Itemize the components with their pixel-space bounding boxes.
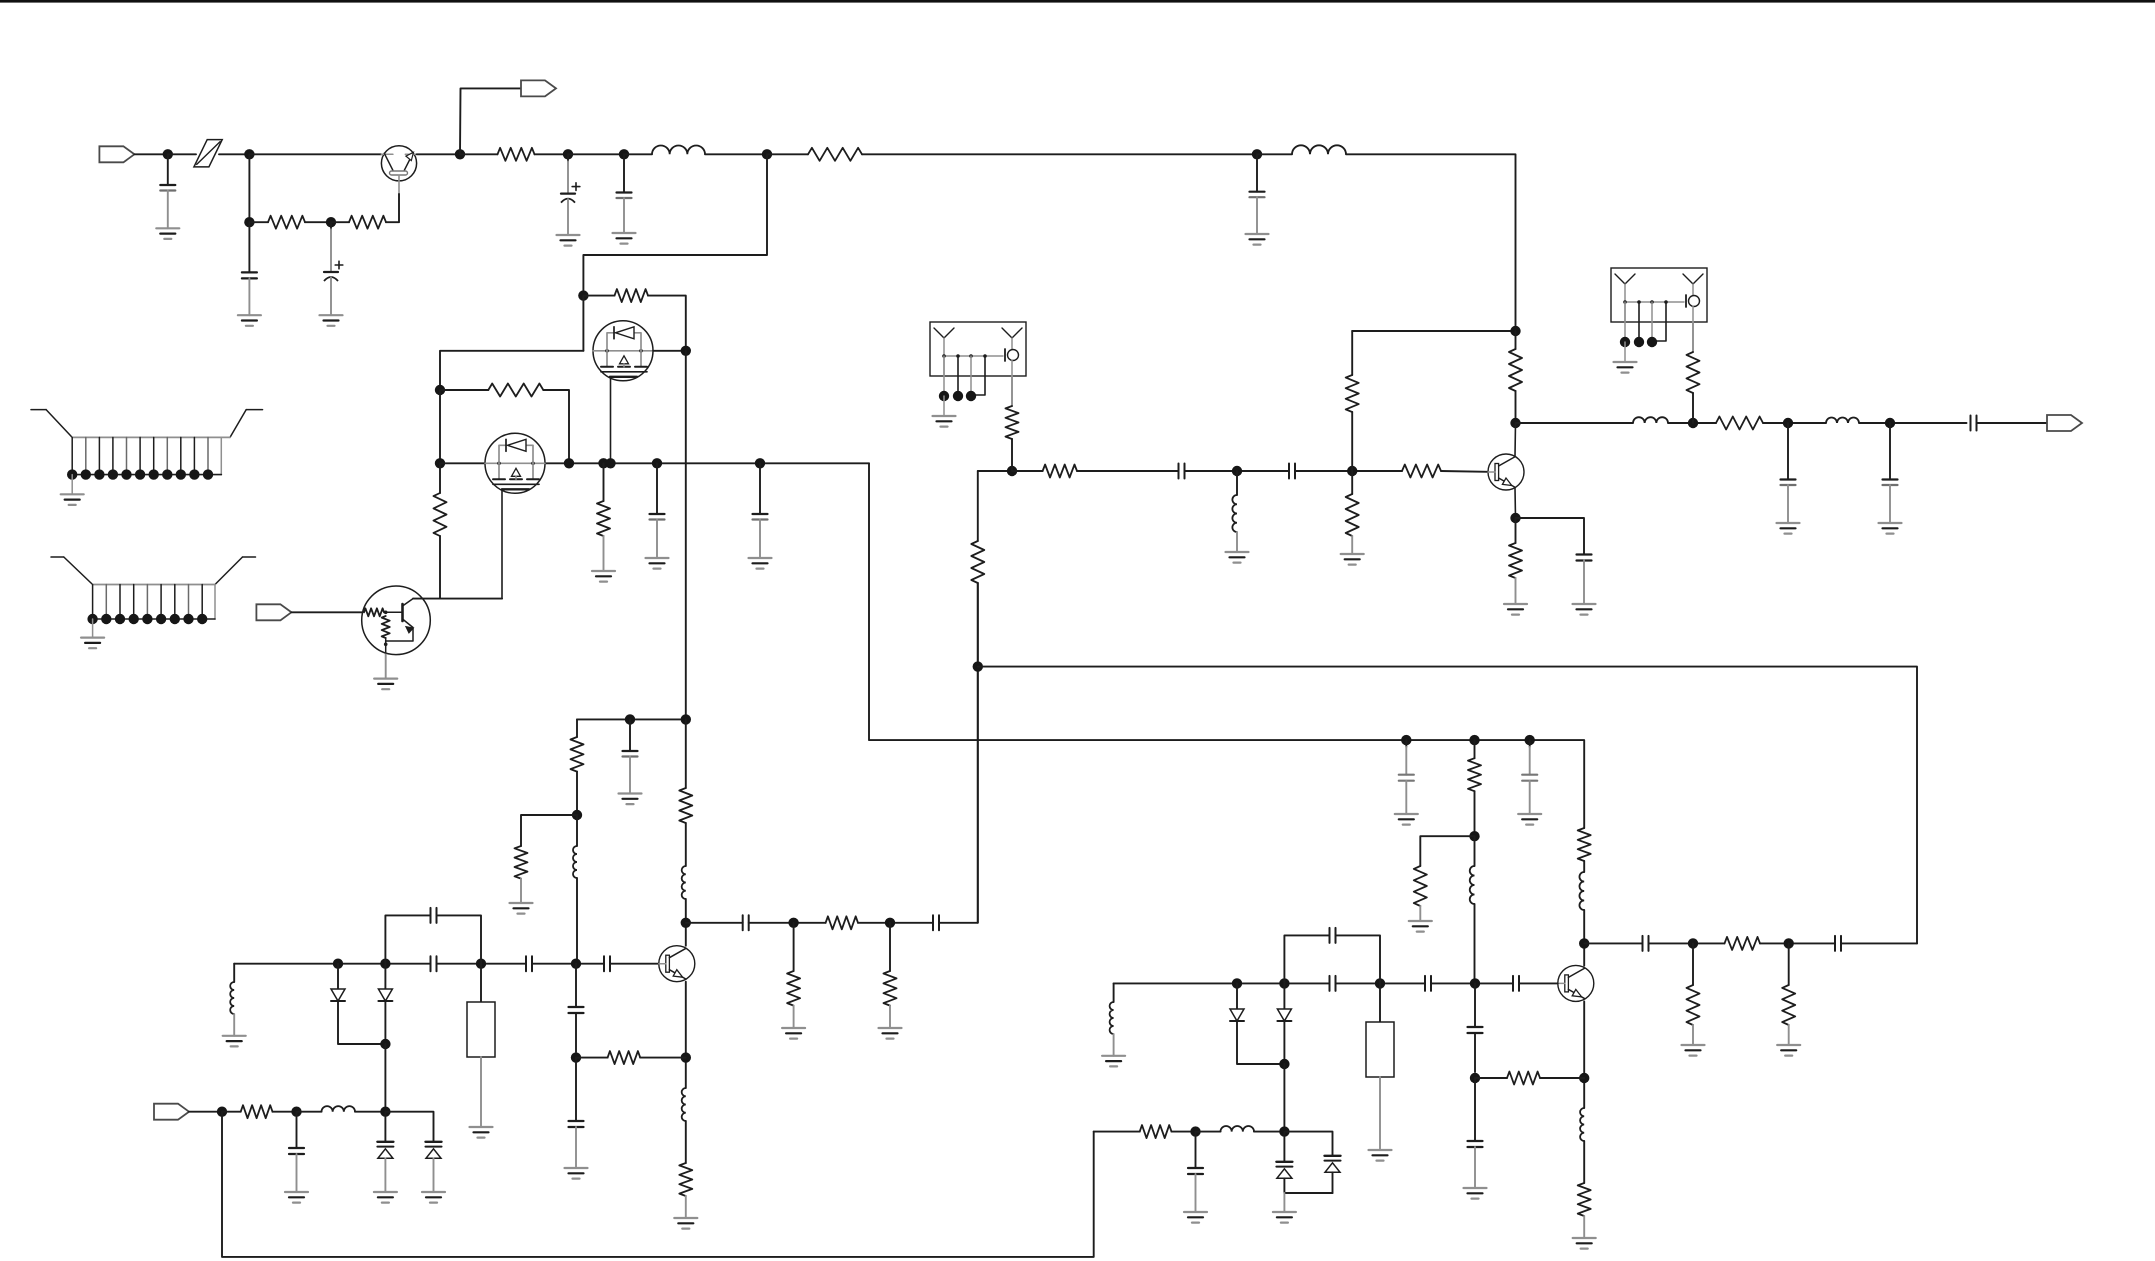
resistor R21 xyxy=(1573,1183,1596,1249)
capacitor C16 xyxy=(565,1058,588,1179)
node J48 xyxy=(1470,978,1480,988)
node J42 xyxy=(1688,938,1698,948)
resistor R24 xyxy=(1012,465,1179,478)
node J51 xyxy=(1470,1073,1480,1083)
capacitor C11 xyxy=(526,956,532,971)
wire (M1 source down) xyxy=(610,377,612,463)
wire xyxy=(1196,1131,1221,1133)
inductor L9 xyxy=(1470,836,1475,983)
wire xyxy=(624,153,652,155)
node J21 xyxy=(681,714,691,724)
wire (M2 source down) xyxy=(501,489,503,599)
node J9 xyxy=(1252,149,1262,159)
wire (stage1 supply) xyxy=(577,718,686,720)
node J56 xyxy=(1525,735,1535,745)
node J60 xyxy=(1510,513,1520,523)
inductor L4 xyxy=(223,964,246,1047)
node J57 xyxy=(1007,466,1017,476)
node J6 xyxy=(563,149,573,159)
transistor Q1 xyxy=(381,146,416,194)
node J32 xyxy=(291,1107,301,1117)
node J43 xyxy=(1784,938,1794,948)
wire xyxy=(1514,423,1517,456)
resistor R17 xyxy=(1725,937,1836,950)
wire xyxy=(749,922,826,924)
capacitor C17 xyxy=(743,915,749,930)
node J13 xyxy=(435,458,445,468)
inductor L3 xyxy=(573,815,577,964)
node J26 xyxy=(380,959,390,969)
capacitor C7 xyxy=(646,463,669,568)
node J27 xyxy=(476,959,486,969)
wire xyxy=(568,153,624,155)
resistor R25 xyxy=(1346,331,1359,471)
port P1 (RF input) xyxy=(99,146,134,162)
wire xyxy=(1346,154,1516,331)
node J25 xyxy=(333,959,343,969)
node J24 xyxy=(681,918,691,928)
node J37 xyxy=(885,918,895,928)
node J50 xyxy=(1279,1126,1289,1136)
wire xyxy=(1420,836,1474,866)
resistor R8 xyxy=(592,463,615,581)
wire xyxy=(168,153,196,155)
node J33 xyxy=(681,1052,691,1062)
capacitor C28 xyxy=(1179,464,1185,479)
connector CN2 xyxy=(51,557,256,648)
wire (gate rail) xyxy=(440,351,583,390)
capacitor C33 xyxy=(1971,416,1977,431)
wire xyxy=(1352,330,1515,332)
diode D1 xyxy=(331,964,385,1044)
port P2 (bias out) xyxy=(521,80,556,96)
capacitor C14b xyxy=(1184,1132,1207,1223)
resistor R3 xyxy=(460,148,568,161)
wire xyxy=(1431,982,1513,984)
connector CN1 xyxy=(31,410,263,505)
inductor L6 xyxy=(1579,872,1584,966)
wire xyxy=(1584,942,1642,944)
wire xyxy=(653,350,686,352)
inductor L7 xyxy=(1580,1108,1584,1183)
wire xyxy=(685,823,687,866)
bus wire xyxy=(440,462,869,464)
wire (J8 to gate network) xyxy=(583,154,767,295)
node J18 xyxy=(435,385,445,395)
resistor R1 xyxy=(249,216,331,229)
wire xyxy=(385,655,387,679)
wire xyxy=(705,153,767,155)
wire xyxy=(1519,982,1558,984)
node J1 xyxy=(163,149,173,159)
capacitor C3 (electrolytic) xyxy=(320,222,343,326)
node J63 xyxy=(1688,418,1698,428)
capacitor C8 xyxy=(749,463,772,568)
inductor L6c xyxy=(682,866,686,946)
node J50b xyxy=(1190,1126,1200,1136)
node J49 xyxy=(1279,1059,1289,1069)
wire (collector link) xyxy=(413,598,502,600)
wire xyxy=(939,583,978,923)
wire (node line) xyxy=(234,963,430,965)
inductor L5b xyxy=(1221,1126,1285,1132)
wire to port P2 xyxy=(460,88,521,154)
capacitor C13 (feedback) xyxy=(385,908,481,964)
capacitor C1 xyxy=(156,154,179,239)
resistor R14 xyxy=(782,923,805,1039)
port P4 (IF input) xyxy=(154,1104,189,1120)
wire xyxy=(1295,470,1402,472)
wire xyxy=(1977,422,2048,424)
wire xyxy=(1185,470,1290,472)
capacitor C19 xyxy=(1835,936,1841,951)
wire xyxy=(291,611,362,613)
transistor Q3 xyxy=(659,946,695,982)
node J64 xyxy=(1783,418,1793,428)
port P3 (control in) xyxy=(256,604,291,620)
resistor R2x (block) xyxy=(467,964,495,1138)
node J59 xyxy=(1347,466,1357,476)
node J28 xyxy=(571,959,581,969)
capacitor C2 xyxy=(238,222,261,326)
node J52 xyxy=(1469,831,1479,841)
resistor R32 xyxy=(1006,376,1019,471)
wire xyxy=(1257,153,1292,155)
diode D4 xyxy=(1277,983,1291,1064)
node J20 xyxy=(625,714,635,724)
varactor VR3 xyxy=(1276,1132,1292,1193)
node J4 xyxy=(326,217,336,227)
capacitor C22 xyxy=(1330,976,1336,991)
wire xyxy=(437,963,527,965)
inductor L5e xyxy=(682,1088,686,1163)
ground xyxy=(374,679,397,690)
transistor Q6 xyxy=(1558,965,1594,1001)
inductor L10 xyxy=(1226,471,1249,563)
resistor R15 xyxy=(879,923,902,1039)
MOSFET M2 xyxy=(485,433,545,493)
inductor L2 xyxy=(1292,145,1346,154)
capacitor C32 xyxy=(1879,423,1902,534)
node J31 xyxy=(217,1107,227,1117)
wire xyxy=(1284,1132,1332,1156)
wire xyxy=(685,982,687,1088)
node J16 xyxy=(605,458,615,468)
capacitor C5 xyxy=(613,154,636,243)
node J41 xyxy=(1579,938,1589,948)
wire xyxy=(189,1111,222,1113)
MOSFET M1 xyxy=(593,321,653,381)
wire xyxy=(685,719,687,788)
diode D2 xyxy=(378,964,392,1044)
wire xyxy=(1841,942,1917,944)
node J45 xyxy=(1232,978,1242,988)
node J3 xyxy=(244,217,254,227)
node J62 xyxy=(1510,326,1520,336)
wire xyxy=(1583,1001,1585,1108)
inductor L8 xyxy=(1102,983,1125,1066)
capacitor C4 (electrolytic) xyxy=(557,154,580,245)
node J47 xyxy=(1375,978,1385,988)
wire xyxy=(582,296,584,351)
node J7 xyxy=(619,149,629,159)
resistor R26 xyxy=(1341,471,1364,565)
varactor VR1 xyxy=(374,1112,397,1203)
node J19 xyxy=(755,458,765,468)
wire xyxy=(1516,422,1634,424)
wire xyxy=(977,583,979,923)
resistor R29 xyxy=(1509,331,1522,423)
fuse F1 xyxy=(194,140,222,167)
node J10 xyxy=(578,290,588,300)
resistor R7 xyxy=(434,463,447,598)
wire (base line) xyxy=(978,470,1012,472)
node J44 xyxy=(1579,1073,1589,1083)
wire xyxy=(219,153,249,155)
resistor R11 xyxy=(222,1105,297,1118)
varactor VR2 xyxy=(422,1142,445,1203)
resistor R20 xyxy=(1578,828,1591,872)
wire xyxy=(1649,942,1725,944)
ground xyxy=(1273,1193,1296,1223)
node J15 xyxy=(598,458,608,468)
resistor R2y (block) xyxy=(1366,983,1394,1160)
node J8 xyxy=(762,149,772,159)
resistor R18 xyxy=(1777,943,1800,1055)
node J22 xyxy=(572,810,582,820)
wire (bias return) xyxy=(222,1112,1094,1257)
capacitor C25 xyxy=(1468,983,1483,1072)
bus corner wire xyxy=(869,463,1584,828)
top border bar xyxy=(0,0,2155,3)
wire xyxy=(439,390,441,463)
capacitor C23 xyxy=(1425,976,1431,991)
resistor R31 xyxy=(1716,417,1826,430)
node J17 xyxy=(652,458,662,468)
capacitor C9 xyxy=(619,719,642,804)
node J35 xyxy=(571,1052,581,1062)
node J2 xyxy=(244,149,254,159)
wire xyxy=(610,963,659,965)
wire xyxy=(1514,488,1517,518)
antenna coupler U2 xyxy=(1611,268,1707,373)
node J58 xyxy=(1232,466,1242,476)
node J11 xyxy=(681,346,691,356)
wire xyxy=(1336,982,1426,984)
capacitor C26 xyxy=(1464,1078,1487,1199)
inductor L12 xyxy=(1826,418,1967,423)
transistor Q5 xyxy=(1488,454,1524,490)
resistor R16 xyxy=(971,541,984,583)
resistor R19 xyxy=(1682,943,1705,1055)
node J29 xyxy=(380,1039,390,1049)
resistor R22 xyxy=(1475,1072,1584,1085)
long vertical wire xyxy=(685,351,687,720)
node J46 xyxy=(1279,978,1289,988)
resistor R6 xyxy=(440,384,569,464)
wire xyxy=(297,1111,322,1113)
capacitor C24 xyxy=(1513,976,1519,991)
capacitor C15 xyxy=(569,964,584,1052)
resistor R9c xyxy=(679,788,692,823)
capacitor C31 xyxy=(1777,423,1800,534)
resistor R23 xyxy=(1409,866,1432,932)
wire xyxy=(532,963,604,965)
resistor R4 xyxy=(767,148,1257,161)
wire xyxy=(521,815,577,846)
capacitor C6 xyxy=(1246,154,1269,244)
node J38 xyxy=(973,661,983,671)
node J61 xyxy=(1510,418,1520,428)
node J55 xyxy=(1469,735,1479,745)
capacitor C18 xyxy=(933,915,939,930)
node J5 xyxy=(455,149,465,159)
feedback wire xyxy=(978,667,1917,944)
wire xyxy=(134,153,167,155)
resistor R30 xyxy=(1687,322,1700,423)
transistor Q2 (digital transistor) xyxy=(362,586,431,655)
antenna coupler U1 xyxy=(930,322,1026,427)
resistor R13 xyxy=(826,916,933,929)
capacitor C30 xyxy=(1516,518,1596,615)
capacitor C21 (feedback) xyxy=(1284,928,1380,984)
node J14 xyxy=(564,458,574,468)
inductor L11 xyxy=(1633,417,1716,423)
wire xyxy=(248,154,250,222)
diode D3 xyxy=(1230,983,1284,1064)
resistor R10 xyxy=(510,846,533,914)
capacitor C14 xyxy=(285,1112,308,1203)
wire xyxy=(1283,1064,1285,1132)
inductor L1 xyxy=(652,145,705,154)
wire xyxy=(385,1112,433,1142)
resistor R5 xyxy=(583,289,685,351)
resistor R1e xyxy=(674,1163,697,1229)
capacitor C29 xyxy=(1289,464,1295,479)
wire xyxy=(384,1044,386,1112)
wire xyxy=(977,471,979,541)
inductor L5 xyxy=(322,1106,386,1112)
capacitor C10 xyxy=(431,956,437,971)
wire (node line) xyxy=(1114,982,1330,984)
resistor R27 xyxy=(1402,465,1488,478)
varactor VR4 xyxy=(1325,1156,1341,1193)
wire xyxy=(249,153,381,155)
node J36 xyxy=(788,918,798,928)
wire xyxy=(1284,1192,1332,1194)
resistor R9 xyxy=(571,719,584,815)
resistor R11b xyxy=(1094,1125,1196,1138)
node J65 xyxy=(1885,418,1895,428)
port P5 (RF output) xyxy=(2047,415,2082,431)
wire xyxy=(686,922,743,924)
wire xyxy=(386,194,399,222)
resistor R12 xyxy=(576,1051,686,1064)
node J30 xyxy=(380,1107,390,1117)
resistor R28 xyxy=(1504,518,1527,615)
resistor R9b xyxy=(1468,740,1481,836)
wire xyxy=(417,153,460,155)
capacitor C27b xyxy=(1518,740,1541,825)
capacitor C12 xyxy=(604,956,610,971)
capacitor C27 xyxy=(1395,740,1418,825)
resistor R2 xyxy=(331,216,386,229)
node J54 xyxy=(1401,735,1411,745)
capacitor C20 xyxy=(1643,936,1649,951)
